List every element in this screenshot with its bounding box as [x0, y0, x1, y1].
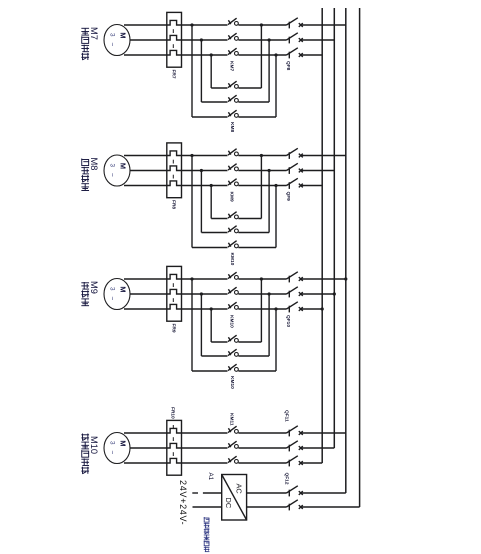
wire — [238, 232, 269, 234]
svg-text:3: 3 — [108, 33, 115, 37]
svg-text:FR10: FR10 — [170, 407, 176, 419]
label FR8 — [170, 200, 176, 209]
wire — [124, 155, 167, 157]
wire — [200, 294, 202, 356]
wire — [238, 185, 286, 187]
wire — [124, 462, 167, 464]
wire — [268, 294, 270, 356]
node taps — [190, 154, 277, 187]
svg-text:KM11: KM11 — [229, 413, 235, 426]
wire — [301, 462, 323, 464]
wire — [247, 506, 287, 508]
wire — [268, 40, 270, 102]
wire — [203, 492, 222, 494]
svg-text:~: ~ — [108, 43, 115, 47]
wire — [301, 24, 346, 26]
wire — [201, 101, 227, 103]
label FR10 — [170, 407, 176, 419]
label KM10 — [229, 253, 235, 266]
motor M7 — [104, 25, 130, 56]
wire — [182, 170, 228, 172]
thermal relay FR8 — [167, 143, 182, 198]
label QF10 — [285, 315, 291, 327]
wire — [301, 54, 323, 56]
label KM11 — [229, 413, 235, 426]
thermal relay FR7 — [167, 12, 182, 67]
svg-text:QF9: QF9 — [285, 192, 291, 202]
svg-text:~: ~ — [108, 173, 115, 177]
contactor KM7 main contacts — [228, 18, 238, 55]
svg-text:FR8: FR8 — [170, 200, 176, 209]
svg-text:M: M — [118, 32, 127, 38]
wire — [200, 40, 202, 102]
svg-text:24V+24V-: 24V+24V- — [178, 480, 188, 525]
wire — [301, 447, 335, 449]
label QF9 — [285, 192, 291, 202]
wire — [130, 447, 167, 449]
breaker QF9 — [287, 148, 303, 189]
wire — [301, 278, 346, 280]
wire — [124, 54, 167, 56]
node bus joints — [321, 277, 348, 310]
wire — [182, 432, 228, 434]
label KM10 — [229, 376, 235, 389]
wire — [275, 309, 277, 371]
bus L3 — [345, 8, 347, 493]
wire — [301, 170, 335, 172]
wire — [124, 308, 167, 310]
power supply A1 — [222, 475, 247, 521]
label M9 name — [81, 282, 89, 306]
wire — [124, 432, 167, 434]
wire — [301, 506, 360, 508]
wire — [201, 232, 227, 234]
wire — [124, 278, 167, 280]
node taps — [190, 23, 277, 56]
wire — [260, 25, 262, 88]
svg-text:M9: M9 — [89, 281, 99, 294]
wire — [238, 218, 261, 220]
wire — [301, 492, 346, 494]
contactor KM9 main contacts — [228, 149, 238, 186]
wire — [192, 492, 198, 494]
wire — [182, 155, 228, 157]
wire — [124, 185, 167, 187]
wire — [191, 279, 193, 371]
wire — [182, 185, 228, 187]
bus L1 — [321, 8, 323, 463]
wire — [238, 447, 286, 449]
contactor KM10 reversing contacts — [228, 212, 238, 248]
label FR7 — [170, 70, 176, 79]
contactor KM10 main contacts — [228, 272, 238, 309]
wire — [192, 370, 228, 372]
bus N — [359, 8, 361, 507]
wire — [210, 186, 212, 219]
contactor KM8 reversing contacts — [228, 81, 238, 117]
wire — [238, 293, 286, 295]
wire — [238, 24, 286, 26]
svg-text:KM10: KM10 — [229, 376, 235, 389]
wire — [211, 87, 227, 89]
svg-text:FR7: FR7 — [170, 70, 176, 79]
wire — [238, 170, 286, 172]
wire — [238, 39, 286, 41]
label KM8 — [229, 122, 235, 132]
wire — [193, 506, 222, 508]
svg-text:M: M — [118, 286, 127, 292]
wire — [182, 293, 228, 295]
svg-text:M10: M10 — [89, 436, 99, 454]
svg-text:QF10: QF10 — [285, 315, 291, 327]
wire — [238, 370, 276, 372]
label KM10 — [229, 315, 235, 328]
label KM9 — [229, 192, 235, 202]
wire — [130, 293, 167, 295]
label M10 name — [81, 434, 89, 474]
wire — [201, 355, 227, 357]
svg-text:A1: A1 — [207, 473, 214, 481]
svg-text:QF12: QF12 — [284, 473, 290, 485]
label M7 — [89, 27, 99, 40]
wire — [247, 492, 287, 494]
breaker QF8 — [287, 18, 303, 59]
wire — [211, 218, 227, 220]
svg-text:KM8: KM8 — [229, 122, 235, 132]
bus L2 — [333, 8, 335, 448]
label QF12 — [284, 473, 290, 485]
wire — [260, 156, 262, 219]
wire — [238, 54, 286, 56]
svg-text:3: 3 — [108, 164, 115, 168]
svg-text:3: 3 — [108, 287, 115, 291]
label FR9 — [170, 324, 176, 333]
svg-text:~: ~ — [108, 297, 115, 301]
wire — [200, 171, 202, 233]
svg-text:DC: DC — [224, 498, 233, 509]
wire — [182, 308, 228, 310]
wire — [130, 170, 167, 172]
label M8 — [89, 158, 99, 171]
label M8 name — [81, 159, 89, 191]
wire — [238, 155, 286, 157]
wire — [238, 278, 286, 280]
wire — [182, 462, 228, 464]
breaker QF10 — [287, 272, 303, 313]
svg-text:AC: AC — [235, 484, 244, 495]
label M10 — [89, 436, 99, 454]
motor M8 — [104, 155, 130, 186]
wire — [301, 308, 323, 310]
label M9 — [89, 281, 99, 294]
wire — [211, 341, 227, 343]
label QF11 — [284, 410, 290, 422]
svg-text:M7: M7 — [89, 27, 99, 40]
svg-text:KM9: KM9 — [229, 192, 235, 202]
svg-text:KM10: KM10 — [229, 253, 235, 266]
wire — [130, 39, 167, 41]
wire — [238, 87, 261, 89]
wire — [301, 39, 335, 41]
wire — [210, 55, 212, 88]
wire — [192, 116, 228, 118]
wire — [301, 155, 346, 157]
wire — [238, 101, 269, 103]
wire — [238, 341, 261, 343]
svg-text:KM10: KM10 — [229, 315, 235, 328]
svg-text:QF8: QF8 — [285, 61, 291, 71]
svg-text:M: M — [118, 440, 127, 446]
label A1 — [207, 473, 214, 481]
wire — [210, 309, 212, 342]
wire — [238, 308, 286, 310]
label M7 name — [81, 28, 89, 60]
wire — [182, 54, 228, 56]
wire — [192, 247, 228, 249]
wire — [238, 116, 276, 118]
wire — [191, 156, 193, 248]
label power supply name — [204, 517, 210, 552]
breaker QF11 — [287, 426, 303, 467]
breaker QF12 — [287, 486, 303, 511]
wire — [275, 55, 277, 117]
wire — [238, 462, 286, 464]
label 24V+ 24V- — [178, 480, 188, 525]
svg-text:M: M — [118, 163, 127, 169]
wire — [260, 279, 262, 342]
wire — [301, 432, 346, 434]
wire — [301, 293, 335, 295]
wire — [275, 186, 277, 248]
motor M9 — [104, 279, 130, 310]
wire — [238, 432, 286, 434]
node taps — [190, 277, 277, 310]
contactor KM10 reversing contacts — [228, 335, 238, 371]
wire — [238, 355, 269, 357]
wire — [191, 25, 193, 117]
svg-text:KM7: KM7 — [229, 61, 235, 71]
svg-text:QF11: QF11 — [284, 410, 290, 422]
contactor KM11 contacts — [228, 426, 238, 463]
thermal relay FR10 — [167, 420, 182, 475]
wire — [124, 24, 167, 26]
wire — [301, 185, 323, 187]
thermal relay FR9 — [167, 266, 182, 321]
svg-text:M8: M8 — [89, 158, 99, 171]
wire — [182, 24, 228, 26]
motor M10 — [104, 433, 130, 464]
wire — [238, 247, 276, 249]
label KM7 — [229, 61, 235, 71]
svg-text:3: 3 — [108, 441, 115, 445]
svg-text:FR9: FR9 — [170, 324, 176, 333]
label QF8 — [285, 61, 291, 71]
wire — [182, 447, 228, 449]
wire — [268, 171, 270, 233]
svg-text:~: ~ — [108, 451, 115, 455]
wire — [182, 278, 228, 280]
wire — [182, 39, 228, 41]
